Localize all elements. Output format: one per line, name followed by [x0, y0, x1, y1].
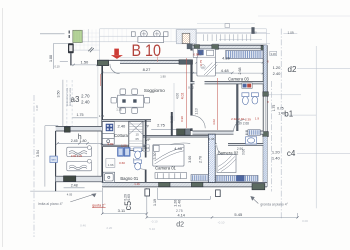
dimension ticks	[56, 61, 298, 218]
svg-text:4.00: 4.00	[175, 93, 179, 99]
page edge	[2, 8, 4, 247]
svg-text:1.36: 1.36	[116, 108, 122, 112]
interior wall: vertical bagno/cottura right	[145, 120, 147, 183]
svg-text:d2: d2	[288, 65, 297, 74]
kitchen counter	[102, 122, 114, 145]
svg-text:0.18: 0.18	[35, 105, 39, 111]
svg-text:2.20: 2.20	[106, 226, 112, 230]
interior wall: bagno01 top	[102, 145, 147, 146]
wall: camera03 bottom	[190, 82, 263, 84]
right margin lines	[268, 34, 350, 209]
brick pillar between balconies	[182, 33, 190, 43]
b9 bed 2	[67, 162, 92, 171]
svg-text:1.09: 1.09	[287, 31, 293, 35]
svg-text:3.00: 3.00	[188, 156, 192, 163]
svg-text:0.90: 0.90	[193, 53, 199, 57]
wall: bottom of apartment	[102, 182, 267, 190]
svg-text:1.75: 1.75	[77, 113, 84, 117]
svg-text:0.90: 0.90	[107, 142, 113, 146]
dining table soggiorno	[111, 89, 150, 113]
svg-text:0.75: 0.75	[277, 106, 284, 110]
svg-text:1.75: 1.75	[272, 105, 276, 112]
svg-text:2.45: 2.45	[71, 139, 78, 143]
faint top edge lines	[197, 23, 255, 25]
projection dashed lines	[67, 80, 72, 127]
svg-text:2.75: 2.75	[176, 209, 183, 213]
svg-text:5.10: 5.10	[149, 227, 155, 231]
svg-text:h: h	[78, 134, 82, 141]
camera01 radiator	[191, 175, 208, 181]
wall: soggiorno top (light)	[99, 60, 193, 63]
svg-text:2.40: 2.40	[178, 200, 182, 207]
svg-text:2.40: 2.40	[238, 117, 244, 121]
svg-text:0.08: 0.08	[208, 137, 214, 141]
camera03 clothes rack	[204, 63, 217, 76]
svg-text:2.68: 2.68	[243, 121, 249, 125]
svg-text:0.60: 0.60	[127, 194, 131, 201]
svg-text:1.40: 1.40	[278, 112, 285, 116]
wall: camera02 top	[215, 143, 263, 145]
svg-text:3.50: 3.50	[56, 91, 60, 98]
svg-text:d2: d2	[176, 222, 184, 229]
green planter top-left	[69, 30, 82, 42]
svg-text:-0.10: -0.10	[218, 220, 225, 224]
svg-text:2.40: 2.40	[81, 99, 90, 104]
left apartment b9: top wall	[56, 126, 102, 132]
svg-text:0.10: 0.10	[54, 65, 60, 69]
gronda arrow	[251, 196, 258, 203]
wall: right side of apartment	[263, 45, 269, 187]
terrace floor grid left	[73, 30, 100, 51]
svg-text:Bagno 01: Bagno 01	[120, 176, 139, 181]
label box 1.34	[143, 145, 149, 151]
svg-text:3.54: 3.54	[36, 150, 40, 157]
wall: left of apartment	[98, 66, 102, 183]
dimension texts	[81, 56, 243, 218]
red dimension annotations	[71, 53, 260, 208]
svg-text:1.34: 1.34	[143, 146, 149, 150]
svg-text:0.75: 0.75	[199, 60, 203, 66]
svg-text:VP: VP	[145, 125, 149, 129]
svg-text:1.20: 1.20	[272, 149, 281, 154]
bagno01 shower tub	[103, 172, 115, 182]
entrance red arrow	[111, 49, 123, 59]
svg-text:3.06: 3.06	[270, 52, 276, 56]
svg-text:3.02: 3.02	[212, 119, 216, 125]
wall: corridor bottom	[193, 131, 264, 134]
wall: bagno02 left	[236, 84, 238, 131]
bagno02 bidet	[251, 93, 258, 104]
svg-text:1.40: 1.40	[272, 155, 281, 160]
svg-text:1.50: 1.50	[81, 59, 90, 64]
dimension lines left	[30, 34, 102, 191]
svg-text:quota 2°: quota 2°	[92, 204, 106, 208]
svg-text:Camera 02: Camera 02	[218, 151, 239, 156]
bagno02 door arc	[234, 120, 246, 132]
svg-text:c4: c4	[287, 149, 296, 158]
camera02 door arc	[217, 145, 228, 156]
wall: entry block top	[97, 60, 108, 65]
svg-text:-0.10: -0.10	[151, 220, 158, 224]
shaft / stair box	[129, 121, 143, 150]
svg-text:2.75: 2.75	[157, 123, 166, 128]
svg-text:4.39: 4.39	[222, 56, 231, 61]
main dimension lines	[102, 62, 297, 218]
svg-text:1.9: 1.9	[255, 116, 260, 120]
svg-text:1.19: 1.19	[153, 199, 157, 206]
svg-text:4.14: 4.14	[178, 214, 185, 218]
faint level texts	[80, 219, 308, 231]
bagno02 sink	[246, 137, 257, 144]
bagno01 double sink	[118, 148, 130, 157]
camera02 bed	[217, 155, 236, 173]
top tiny marks	[225, 24, 230, 28]
projection text	[35, 87, 72, 110]
label box 1.96	[106, 159, 115, 168]
svg-text:Soggiorno: Soggiorno	[144, 88, 165, 93]
svg-text:Cottura: Cottura	[114, 133, 128, 138]
red mark below title	[157, 57, 159, 63]
svg-text:0.68: 0.68	[170, 116, 174, 123]
balcony table and chairs	[131, 31, 168, 43]
camera03 dresser	[242, 83, 252, 88]
svg-text:3.30: 3.30	[153, 153, 157, 160]
svg-text:0.90: 0.90	[180, 116, 184, 122]
svg-text:2.70: 2.70	[198, 156, 202, 163]
svg-text:1.96: 1.96	[108, 163, 114, 167]
faint extension lines	[120, 58, 193, 121]
camera01 bed	[153, 145, 184, 167]
hatched wall camera01/02	[208, 134, 215, 182]
svg-text:4.05: 4.05	[67, 192, 73, 196]
interior wall: camera01 top	[143, 136, 208, 138]
balcony outer edges	[68, 29, 267, 66]
svg-text:0.00: 0.00	[302, 219, 308, 223]
interior wall: stub above camera01	[171, 112, 173, 136]
svg-text:2.70: 2.70	[81, 94, 90, 99]
svg-text:2.40: 2.40	[273, 71, 282, 76]
svg-text:4.48: 4.48	[221, 68, 230, 73]
svg-text:b1: b1	[284, 109, 293, 118]
property dash-dot lines	[34, 29, 281, 237]
kitchen stove	[106, 124, 114, 132]
b9 bed 1	[67, 147, 92, 156]
svg-text:4.45: 4.45	[174, 146, 183, 151]
interior wall: cottura top	[102, 120, 151, 122]
svg-text:1.13: 1.13	[195, 108, 199, 114]
bagno01 wc	[134, 148, 142, 159]
bagno02 radiator	[248, 130, 260, 136]
balcony floor grid top	[104, 29, 189, 42]
hatched band between balconies	[177, 30, 197, 44]
svg-text:2.90: 2.90	[237, 147, 243, 151]
svg-text:2.39: 2.39	[245, 118, 251, 122]
bagno01 door arc	[134, 158, 145, 169]
small dims left	[71, 113, 87, 187]
camera01 wardrobe	[155, 173, 187, 179]
svg-text:Camera 03: Camera 03	[228, 76, 249, 81]
entrance door arc	[110, 64, 120, 74]
svg-text:5.45: 5.45	[234, 212, 243, 217]
svg-text:4.02: 4.02	[180, 93, 184, 100]
camera01 door swing	[156, 143, 190, 149]
svg-text:c5: c5	[123, 201, 133, 211]
camera03 desk and chair	[193, 49, 197, 58]
svg-text:8.27: 8.27	[143, 67, 152, 72]
dark slab below brick pillar	[187, 44, 193, 50]
svg-text:1.16: 1.16	[134, 182, 140, 186]
wall: camera03 top	[193, 45, 267, 53]
rotated dimension texts	[36, 55, 242, 207]
svg-text:0.12: 0.12	[188, 85, 194, 89]
bagno01 bidet	[134, 160, 142, 170]
svg-text:B 10: B 10	[132, 42, 162, 60]
svg-text:1.90: 1.90	[160, 75, 166, 79]
lintel camera01 door	[177, 129, 186, 135]
slope mark terrace	[88, 47, 94, 52]
svg-text:1.94: 1.94	[99, 114, 105, 118]
camera03 bed	[196, 49, 216, 76]
svg-text:2.40: 2.40	[118, 123, 127, 128]
svg-text:gronda al piano 4°: gronda al piano 4°	[260, 203, 288, 207]
pillar below planter	[68, 43, 74, 65]
svg-text:2.39: 2.39	[236, 121, 242, 125]
svg-text:2.68: 2.68	[238, 68, 242, 75]
washing machine	[50, 156, 57, 162]
wall: camera03 left	[190, 49, 192, 131]
camera03 radiator	[226, 50, 263, 58]
svg-text:wm: wm	[52, 159, 56, 162]
svg-text:1.20: 1.20	[273, 65, 282, 70]
left apartment b9: bottom wall	[56, 176, 102, 182]
wall: dark segment right of soggiorno top	[179, 60, 193, 64]
svg-text:Camera 01: Camera 01	[155, 166, 176, 171]
misc small dims	[54, 31, 293, 213]
b9 marker circle	[87, 146, 91, 150]
small piers below bottom wall	[145, 189, 150, 196]
svg-text:05: 05	[136, 137, 140, 141]
svg-text:lmita al piano 4°: lmita al piano 4°	[38, 202, 64, 206]
svg-text:0.90 1.20: 0.90 1.20	[71, 154, 83, 158]
camera02 radiator bottom	[216, 175, 258, 181]
svg-text:VP: VP	[146, 138, 151, 142]
svg-text:2.32: 2.32	[231, 117, 237, 121]
limite arrow	[70, 194, 96, 202]
svg-text:a3: a3	[71, 95, 80, 104]
svg-text:0.60: 0.60	[119, 161, 125, 165]
balcony railing balusters	[204, 34, 251, 41]
svg-text:0.46: 0.46	[80, 224, 86, 228]
bagno02 wc	[242, 93, 249, 105]
svg-text:1.88: 1.88	[49, 55, 53, 62]
camera03 door arc	[193, 51, 203, 61]
svg-text:2.48: 2.48	[71, 184, 78, 188]
left apartment b9: left wall	[55, 131, 57, 191]
red marks on left wall	[99, 74, 101, 86]
svg-text:1.20: 1.20	[121, 144, 127, 148]
svg-text:1.00: 1.00	[251, 31, 257, 35]
